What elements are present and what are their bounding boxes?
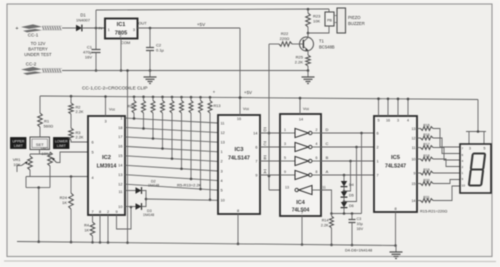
svg-text:R15: R15 (423, 123, 429, 127)
display DIS1 seven segment (460, 144, 491, 193)
svg-text:BATTERY: BATTERY (28, 47, 48, 52)
crocodile clip CC-2 (21, 67, 62, 75)
svg-text:+5V: +5V (197, 22, 206, 27)
wire +5V drop to lower rail (239, 28, 242, 99)
label CC-2 (26, 62, 37, 67)
svg-text:D: D (326, 127, 329, 132)
crocodile clip CC-1 (21, 24, 62, 32)
note TO 12V BATTERY UNDER TEST (24, 41, 52, 57)
svg-text:12: 12 (118, 182, 122, 186)
svg-text:R17: R17 (423, 142, 429, 146)
svg-text:IN: IN (98, 26, 102, 31)
svg-text:R18: R18 (423, 154, 429, 158)
svg-text:1: 1 (284, 128, 286, 132)
svg-text:6: 6 (316, 156, 318, 160)
wire pot bottoms to ground bus (26, 166, 50, 243)
note D4-D6 value (345, 248, 372, 253)
svg-text:Vcc: Vcc (243, 107, 249, 111)
svg-text:IC5: IC5 (391, 155, 401, 161)
inverter gate 5 IC4 mirrored (285, 185, 326, 194)
svg-text:10K: 10K (41, 151, 48, 156)
svg-text:LIMIT: LIMIT (57, 144, 67, 148)
inverter gates IC4 (280, 128, 321, 179)
svg-text:R19: R19 (423, 168, 429, 172)
svg-text:2.2K: 2.2K (321, 224, 329, 228)
svg-text:1N4148: 1N4148 (143, 213, 154, 217)
svg-text:1N4007: 1N4007 (76, 18, 91, 23)
note R5-R13 value (177, 182, 202, 187)
svg-text:10K: 10K (13, 162, 20, 167)
wire +5V to display common anode (466, 100, 486, 145)
preset VR1 10K (13, 156, 33, 177)
wire IC1 OUT +5V (138, 22, 241, 29)
wire output lines IC2 to IC3 (125, 118, 218, 190)
svg-text:2: 2 (462, 165, 464, 169)
wire A tap to D4 (343, 174, 346, 181)
svg-text:CC-2: CC-2 (26, 62, 37, 67)
svg-text:5: 5 (221, 189, 223, 193)
svg-text:14: 14 (299, 117, 303, 121)
svg-text:74LS147: 74LS147 (228, 156, 250, 162)
svg-text:5: 5 (484, 147, 486, 151)
svg-text:4: 4 (316, 142, 318, 146)
pin labels IC5 left inputs (377, 131, 379, 177)
svg-text:5: 5 (92, 151, 94, 155)
svg-text:IC1: IC1 (117, 22, 126, 28)
svg-text:1K: 1K (84, 229, 89, 233)
svg-text:13: 13 (412, 127, 416, 131)
svg-text:LM3914: LM3914 (97, 164, 117, 170)
IC5 74LS247 BCD to 7-segment decoder (374, 116, 417, 212)
svg-text:13: 13 (221, 141, 225, 145)
svg-text:0.1µ: 0.1µ (156, 48, 165, 53)
svg-text:13: 13 (118, 173, 122, 177)
resistor R23 10K (306, 8, 321, 34)
svg-text:Vcc: Vcc (303, 107, 309, 111)
svg-text:R20: R20 (423, 178, 429, 182)
diode D1 1N4007 (76, 13, 91, 32)
svg-text:2.2K: 2.2K (295, 60, 304, 65)
resistor R25 2.2K (295, 55, 311, 72)
svg-text:4: 4 (407, 119, 409, 123)
svg-text:R5: R5 (128, 105, 133, 109)
svg-text:9: 9 (115, 210, 117, 214)
note crocodile clip legend (82, 86, 148, 91)
label CC-1 (28, 33, 39, 38)
pin labels IC2 right (118, 116, 122, 209)
svg-text:BC548B: BC548B (319, 45, 335, 50)
resistor R1 560ohm (38, 96, 53, 138)
svg-text:12: 12 (221, 131, 225, 135)
transistor T1 BC548B (292, 33, 335, 55)
wire +5V lower rail (40, 90, 478, 100)
svg-text:Vcc: Vcc (109, 108, 115, 112)
svg-text:3: 3 (397, 119, 399, 123)
wire inverter 5 input from diode node (321, 190, 333, 215)
note R15-R21 value (420, 209, 447, 214)
wire SET divider (30, 150, 50, 157)
svg-text:14: 14 (253, 131, 257, 135)
svg-text:R5-R13=2.2K: R5-R13=2.2K (177, 182, 202, 187)
svg-text:UPPER: UPPER (12, 140, 25, 144)
wire IC5 pin 8 to ground (394, 207, 397, 247)
svg-text:T1: T1 (319, 39, 325, 44)
svg-text:2: 2 (107, 210, 109, 214)
node CC-1 plus terminal (15, 26, 18, 32)
svg-text:10: 10 (118, 205, 122, 209)
svg-text:C3: C3 (357, 217, 362, 221)
svg-text:16V: 16V (85, 55, 92, 60)
wire D2 D3 to IC3 pin 10 (146, 199, 218, 200)
wire IC3 pin 16 Vcc (237, 96, 249, 121)
svg-text:D4: D4 (349, 183, 354, 187)
pin labels IC3 left (221, 121, 225, 202)
svg-text:+: + (15, 26, 18, 32)
svg-text:16V: 16V (357, 227, 364, 231)
svg-text:D6: D6 (349, 204, 354, 208)
svg-text:6: 6 (255, 145, 257, 149)
svg-text:C: C (326, 141, 329, 146)
wire IC4 pin 14 Vcc (299, 97, 310, 122)
svg-text:9: 9 (414, 171, 416, 175)
svg-text:CC-1,CC-2=CROCODILE CLIP: CC-1,CC-2=CROCODILE CLIP (82, 86, 148, 91)
label LOWER LIMIT (54, 138, 70, 149)
svg-text:7: 7 (462, 147, 464, 151)
label SET box (30, 137, 50, 150)
svg-text:8: 8 (394, 207, 396, 211)
svg-text:8: 8 (316, 170, 318, 174)
svg-text:D: D (264, 127, 267, 132)
node output labels D C B A with overbar (264, 127, 267, 174)
svg-text:3: 3 (104, 120, 106, 124)
svg-text:4: 4 (462, 159, 464, 163)
svg-text:COM: COM (121, 40, 130, 45)
svg-text:B: B (264, 155, 267, 160)
resistor R3 2.2K (69, 128, 88, 142)
svg-text:11: 11 (322, 186, 326, 190)
pin labels IC3 right outputs (253, 131, 257, 177)
svg-text:16: 16 (386, 119, 390, 123)
svg-text:560Ω: 560Ω (44, 124, 54, 129)
svg-text:10K: 10K (313, 19, 320, 24)
resistors R15-R21 220ohm segment resistors (412, 123, 461, 203)
svg-text:12: 12 (412, 136, 416, 140)
svg-text:C: C (264, 141, 267, 146)
wire IC2 pin 8 to ground (99, 215, 102, 244)
svg-text:B: B (326, 155, 329, 160)
svg-text:IC3: IC3 (234, 147, 244, 153)
svg-text:16: 16 (118, 145, 122, 149)
svg-text:10: 10 (412, 157, 416, 161)
wire IC4 pin 7 to ground (301, 211, 304, 246)
svg-text:1K: 1K (62, 200, 67, 205)
svg-text:R13: R13 (214, 104, 221, 108)
svg-text:A: A (264, 169, 267, 174)
wire CC-1 to D1 (62, 27, 76, 29)
svg-text:IC2: IC2 (102, 155, 111, 161)
wire IC2 pin 3 Vcc (104, 95, 115, 123)
svg-text:11: 11 (221, 121, 225, 125)
svg-text:5: 5 (378, 119, 380, 123)
IC2 LM3914 bargraph driver (88, 116, 125, 215)
diode D3 1N4148 (125, 198, 154, 218)
svg-text:3: 3 (469, 147, 471, 151)
svg-text:PB: PB (327, 19, 332, 23)
svg-text:220Ω: 220Ω (280, 36, 290, 41)
svg-text:1: 1 (221, 150, 223, 154)
wire diode summing node (332, 212, 362, 215)
svg-text:R21: R21 (423, 195, 429, 199)
svg-text:7: 7 (301, 211, 303, 215)
svg-text:1: 1 (108, 28, 110, 32)
wire IC1 COM to ground rail (120, 39, 123, 72)
svg-text:R15-R21=220Ω: R15-R21=220Ω (420, 209, 447, 214)
svg-text:13: 13 (285, 186, 289, 190)
svg-text:2.2K: 2.2K (76, 135, 84, 140)
svg-text:9: 9 (462, 177, 464, 181)
svg-text:3: 3 (221, 169, 223, 173)
svg-text:R14: R14 (322, 219, 329, 223)
resistor R14 2.2K (321, 214, 334, 247)
wire IC5 top pins to +5V (377, 97, 409, 122)
svg-text:6: 6 (462, 153, 464, 157)
diode D6 1N4148 (341, 202, 354, 214)
svg-text:74LS247: 74LS247 (385, 164, 406, 170)
scan shadow bottom edge (4, 260, 496, 263)
svg-text:15: 15 (118, 154, 122, 158)
capacitor C3 10u 16V (349, 214, 364, 247)
resistor R24 1K (60, 177, 74, 244)
ground symbol at C2 (144, 71, 157, 84)
pin labels IC2 left (92, 141, 94, 181)
ground symbol at R25 (302, 71, 315, 84)
wire D tap down to node line (360, 132, 363, 214)
svg-text:3: 3 (284, 142, 286, 146)
svg-text:R4: R4 (84, 224, 89, 228)
label UPPER LIMIT (11, 138, 27, 149)
svg-text:8: 8 (237, 209, 239, 213)
svg-text:6: 6 (92, 141, 94, 145)
wire B tap to D4-D5 junction (343, 160, 352, 193)
svg-text:15: 15 (412, 182, 416, 186)
wire IC2 pin 2 to ground (107, 215, 110, 244)
wire ground link vertical (126, 69, 129, 244)
svg-text:16: 16 (237, 117, 241, 121)
svg-text:6: 6 (377, 131, 379, 135)
resistor R2 2.2K (69, 95, 84, 128)
svg-text:UNDER TEST: UNDER TEST (24, 52, 52, 57)
svg-text:3: 3 (133, 28, 135, 32)
svg-text:+: + (213, 90, 216, 95)
svg-text:1: 1 (462, 171, 464, 175)
wire IC3 outputs to IC4 (260, 133, 280, 175)
wire ground rail bottom (17, 242, 396, 246)
wire IC2 pin 9 loop (117, 206, 133, 229)
svg-text:LIMIT: LIMIT (14, 144, 24, 148)
svg-text:LOWER: LOWER (55, 140, 68, 144)
pin labels display left (462, 147, 466, 188)
capacitor C1 470u 16V (83, 28, 100, 72)
svg-text:OUT: OUT (138, 21, 147, 26)
svg-text:4: 4 (92, 176, 94, 180)
svg-text:1N4148: 1N4148 (148, 184, 159, 188)
wire D C B A lines IC4 to IC5 (321, 127, 374, 175)
svg-text:2: 2 (221, 160, 223, 164)
svg-text:2: 2 (120, 34, 122, 38)
svg-text:2.2K: 2.2K (76, 109, 84, 114)
svg-text:PIEZO: PIEZO (348, 15, 361, 20)
piezo buzzer PB1 (308, 8, 365, 33)
diode D2 1N4148 (125, 180, 159, 200)
svg-text:IC4: IC4 (296, 200, 304, 206)
IC3 74LS147 priority encoder (218, 115, 260, 214)
wire C tap to D5-D6 junction (343, 146, 358, 203)
resistor R22 220ohm (279, 31, 292, 46)
svg-text:17: 17 (118, 135, 122, 139)
svg-text:14: 14 (118, 164, 122, 168)
svg-text:R16: R16 (423, 133, 429, 137)
wire lower limit line to IC2 pin 4 (26, 175, 88, 178)
IC4 74LS04 hex inverter (280, 114, 321, 216)
wire IC3 pin 8 to ground (237, 209, 240, 245)
svg-text:7: 7 (255, 159, 257, 163)
svg-text:+5V: +5V (244, 90, 252, 95)
svg-text:14: 14 (412, 199, 416, 203)
resistor R4 1K (84, 215, 95, 244)
wire R22 drop to D-bar and inverter 5 output (268, 44, 295, 190)
svg-text:8: 8 (99, 210, 101, 214)
svg-text:2: 2 (316, 128, 318, 132)
svg-text:10µ: 10µ (357, 222, 364, 226)
svg-text:11: 11 (412, 146, 416, 150)
svg-text:10: 10 (221, 199, 225, 203)
preset VR2 10K (41, 146, 88, 166)
ground symbol bottom (390, 246, 403, 259)
diode D5 1N4148 (341, 192, 354, 198)
pin labels IC2 bottom (91, 210, 117, 214)
svg-text:D5: D5 (349, 194, 354, 198)
regulator IC1 7805 (98, 19, 147, 46)
svg-text:A: A (326, 169, 329, 174)
svg-text:2: 2 (377, 145, 379, 149)
svg-text:9: 9 (284, 170, 286, 174)
svg-text:D4-D6=1N4148: D4-D6=1N4148 (345, 248, 372, 253)
svg-text:10: 10 (462, 183, 466, 187)
svg-text:11: 11 (119, 190, 123, 194)
svg-text:TO 12V: TO 12V (31, 41, 46, 46)
diode D4 1N4148 (341, 181, 354, 187)
svg-text:4: 4 (221, 179, 223, 183)
svg-text:1: 1 (120, 116, 122, 120)
svg-text:7: 7 (377, 173, 379, 177)
svg-text:7: 7 (91, 210, 93, 214)
svg-text:1: 1 (377, 159, 379, 163)
svg-text:5: 5 (284, 156, 286, 160)
wire ground rail top (62, 70, 308, 72)
wire unregulated supply top rail (96, 9, 329, 28)
capacitor C2 0.1u (146, 28, 165, 72)
wire D1 to IC1 IN (82, 27, 105, 30)
resistors R5-R13 pull-up network 2.2K (128, 95, 221, 201)
svg-text:BUZZER: BUZZER (348, 21, 365, 26)
svg-text:9: 9 (255, 173, 257, 177)
svg-text:CC-1: CC-1 (28, 33, 39, 38)
svg-text:18: 18 (118, 126, 122, 130)
